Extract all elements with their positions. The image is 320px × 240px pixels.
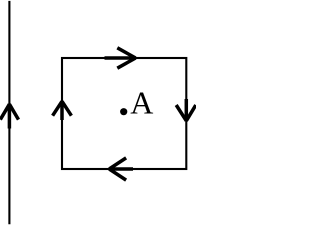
current arrow on top side (right) bbox=[105, 48, 136, 68]
current arrow on right side (down) bbox=[176, 99, 196, 121]
current arrow on bottom side (left) bbox=[109, 158, 133, 180]
node A: dot at centre of loop bbox=[120, 108, 127, 115]
square loop bbox=[62, 58, 186, 169]
svg-text:A: A bbox=[130, 85, 153, 121]
current arrow on left side (up) bbox=[53, 101, 72, 120]
wire: long straight vertical wire bbox=[8, 1, 10, 224]
current arrow on straight wire (up) bbox=[0, 104, 18, 128]
